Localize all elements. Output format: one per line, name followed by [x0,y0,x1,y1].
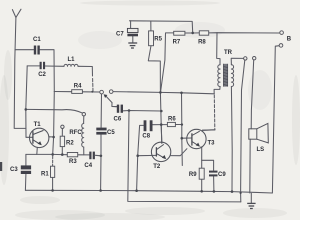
svg-text:TR: TR [224,50,233,56]
svg-text:C2: C2 [38,72,46,78]
svg-text:R9: R9 [189,172,197,178]
svg-text:C5: C5 [107,130,115,136]
svg-text:R8: R8 [198,39,206,45]
svg-text:T3: T3 [208,141,216,147]
svg-text:B: B [287,36,292,42]
svg-text:R5: R5 [154,36,162,42]
svg-text:C4: C4 [84,163,92,169]
svg-text:R1: R1 [41,172,49,178]
svg-text:C8: C8 [142,134,150,140]
svg-text:C7: C7 [116,31,124,37]
svg-text:R4: R4 [74,83,82,89]
svg-text:T1: T1 [34,122,42,128]
svg-text:R7: R7 [173,39,181,45]
svg-text:R6: R6 [168,116,176,122]
svg-text:L1: L1 [68,57,76,63]
svg-text:C1: C1 [33,37,41,43]
svg-text:LS: LS [257,147,265,153]
svg-text:C3: C3 [10,167,18,173]
svg-text:T2: T2 [153,164,161,170]
svg-text:R3: R3 [69,159,77,165]
svg-text:R2: R2 [66,140,74,146]
svg-text:C6: C6 [114,117,122,123]
svg-text:C9: C9 [218,172,226,178]
svg-text:RFC: RFC [69,130,82,136]
